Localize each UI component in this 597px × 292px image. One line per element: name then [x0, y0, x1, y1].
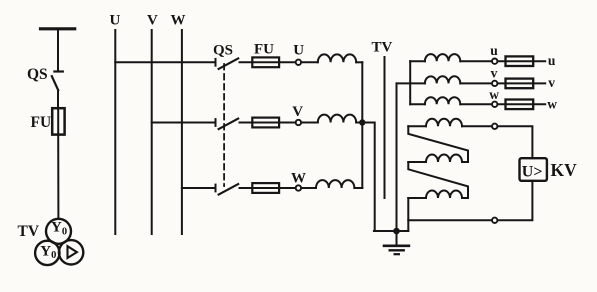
fuse body v	[506, 79, 534, 89]
bus W vertical line	[181, 30, 183, 234]
terminal circle open delta top	[492, 124, 497, 129]
svg-text:KV: KV	[551, 160, 578, 180]
fuse FU wire through	[57, 109, 59, 134]
svg-text:V: V	[292, 104, 303, 120]
transformer core line	[384, 57, 386, 198]
wire terminal W to coil	[301, 187, 316, 189]
svg-text:FU: FU	[31, 114, 52, 131]
wire coil v left to neutral	[397, 82, 425, 84]
QS top contact tick	[54, 70, 62, 72]
wire FU to TV	[57, 135, 59, 219]
wire coil u right to terminal	[460, 60, 492, 62]
switch QS blade U phase	[219, 58, 239, 69]
svg-text:U: U	[110, 13, 121, 29]
open delta coil 1	[426, 119, 462, 126]
bus U vertical line	[114, 30, 116, 234]
wire coil u left to star bus	[410, 60, 425, 62]
transformer TV winding circle bottom-right (open delta)	[59, 240, 83, 264]
ground stem	[396, 231, 398, 245]
svg-text:v: v	[491, 66, 498, 81]
junction dot ground	[393, 228, 400, 235]
terminal circle u	[492, 59, 497, 64]
open delta coil 2	[426, 155, 462, 163]
svg-text:U>: U>	[522, 164, 543, 181]
fuse FU body V phase	[252, 118, 279, 128]
svg-text:W: W	[291, 171, 306, 187]
terminal circle W	[296, 185, 301, 190]
svg-text:v: v	[548, 75, 555, 90]
terminal circle U	[296, 60, 301, 65]
fuse FU body	[52, 108, 64, 134]
svg-text:V: V	[147, 13, 158, 29]
fuse body w	[506, 100, 534, 110]
wire open delta coil1 left	[408, 125, 426, 127]
wire coil v right to terminal	[460, 82, 492, 84]
wire open delta coil1 right to terminal	[462, 125, 492, 127]
terminal circle V	[296, 120, 301, 125]
ground bar 1	[384, 245, 409, 248]
wire open delta bottom end	[408, 198, 492, 220]
wire terminal U to coil	[301, 61, 317, 63]
svg-text:TV: TV	[18, 223, 40, 240]
wire coil V end to junction	[356, 122, 362, 124]
wire primary star tie vertical	[361, 62, 363, 188]
wire tap U phase	[115, 61, 215, 63]
wire open delta coil3 left	[408, 197, 426, 199]
switch QS blade W phase	[219, 184, 239, 195]
wire open delta coil3 right	[462, 197, 468, 199]
relay box U>	[520, 158, 547, 181]
switch QS contact tick U phase	[215, 59, 217, 66]
svg-text:TV: TV	[372, 40, 393, 56]
QS gang linkage dashed line	[223, 64, 225, 186]
open delta stub and diagonal 1	[408, 126, 468, 162]
terminal circle open delta bottom	[492, 218, 497, 223]
secondary neutral wire down	[396, 83, 398, 231]
svg-text:w: w	[547, 97, 557, 112]
bus V vertical line	[151, 30, 153, 234]
svg-text:u: u	[490, 43, 498, 58]
open delta triangle symbol	[68, 246, 77, 258]
wire relay bottom	[498, 181, 533, 221]
secondary winding coil v	[425, 76, 460, 83]
svg-text:QS: QS	[27, 66, 48, 83]
svg-text:W: W	[171, 13, 186, 29]
fuse body u	[506, 56, 534, 66]
wire switch to fuse W phase	[240, 187, 296, 189]
wire coil w left to star bus	[410, 103, 425, 105]
primary winding coil U	[318, 54, 356, 62]
fuse FU body U phase	[252, 57, 279, 67]
wire tap W phase	[182, 187, 216, 189]
wire switch to fuse V phase	[240, 122, 296, 124]
fuse wire v	[498, 82, 546, 84]
svg-text:QS: QS	[213, 43, 233, 59]
ground bar 2	[390, 249, 404, 251]
fuse wire w	[498, 103, 546, 105]
transformer TV winding circle bottom-left (Y0)	[35, 241, 59, 265]
wire terminal V to coil	[301, 122, 317, 124]
svg-text:U: U	[293, 42, 304, 58]
wire coil W end	[354, 187, 362, 189]
switch QS contact tick V phase	[215, 119, 217, 126]
wire QS to FU	[57, 90, 59, 109]
terminal circle w	[492, 102, 497, 107]
wire switch to fuse U phase	[240, 61, 296, 63]
svg-text:u: u	[548, 53, 556, 68]
switch QS blade V phase	[219, 119, 239, 130]
wire tap V phase	[152, 122, 216, 124]
fuse FU body W phase	[252, 183, 279, 193]
wire busbar to QS	[57, 29, 59, 72]
primary winding coil V	[318, 115, 356, 123]
wire primary neutral to ground rail	[362, 123, 374, 232]
wire open delta bottom to ground rail	[407, 220, 409, 231]
junction dot primary neutral	[359, 119, 365, 125]
wire open delta coil2 left	[408, 161, 426, 163]
disconnector QS blade	[52, 76, 58, 90]
open delta stub and diagonal 2	[408, 162, 468, 198]
wire relay top	[498, 126, 533, 158]
terminal circle v	[492, 81, 497, 86]
secondary winding coil w	[425, 97, 460, 104]
svg-text:w: w	[489, 87, 499, 102]
ground rail	[374, 230, 408, 232]
secondary star bus vertical	[409, 61, 411, 104]
fuse wire u	[498, 60, 546, 62]
secondary winding coil u	[425, 54, 460, 61]
wire coil U end	[356, 61, 362, 63]
transformer TV winding circle top (Y0)	[46, 219, 71, 244]
wire coil w right to terminal	[460, 103, 492, 105]
wire open delta coil2 right	[462, 161, 468, 163]
svg-text:FU: FU	[254, 42, 274, 58]
primary winding coil W	[316, 180, 354, 188]
switch QS contact tick W phase	[215, 185, 217, 192]
ground bar 3	[395, 253, 399, 255]
open delta coil 3	[426, 191, 462, 198]
busbar (left single-line diagram)	[41, 27, 75, 30]
